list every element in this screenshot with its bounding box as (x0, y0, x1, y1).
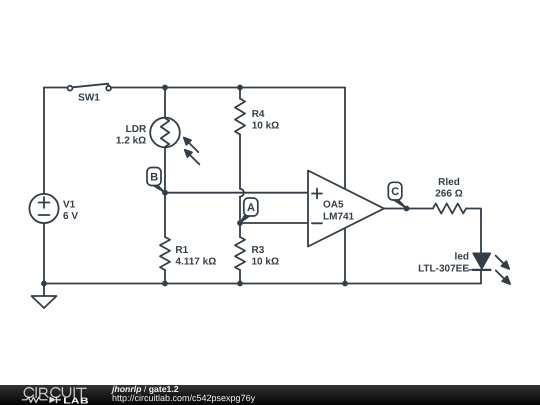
svg-text:R4: R4 (252, 109, 265, 120)
svg-text:266 Ω: 266 Ω (435, 189, 462, 200)
svg-text:SW1: SW1 (78, 93, 100, 104)
junction dot node B (162, 190, 168, 196)
svg-text:V1: V1 (63, 200, 76, 211)
wire left vertical lower (43, 223, 45, 283)
wire top rail right of SW1 (111, 87, 345, 89)
svg-text:http://circuitlab.com/c542psex: http://circuitlab.com/c542psexpg76y (112, 393, 256, 403)
svg-text:OA5: OA5 (323, 200, 344, 211)
footer logo CIRCUIT (24, 388, 86, 398)
resistor R4 (235, 99, 245, 135)
wire LED bottom lead (480, 271, 482, 284)
svg-text:led: led (455, 251, 469, 262)
wire op-amp power vertical (344, 88, 346, 284)
junction dot ground tap (41, 281, 47, 287)
switch SW1 (68, 84, 111, 91)
wire Rled to corner (466, 209, 481, 254)
wire node B horizontal (165, 192, 308, 194)
junction dot bottom rail R3 (237, 281, 243, 287)
node B callout (147, 168, 165, 193)
junction dot bottom rail R1 (162, 281, 168, 287)
wire LDR top lead (164, 88, 166, 119)
footer bar (0, 385, 540, 405)
LED light arrow 1 (496, 256, 510, 269)
footer logo diode (49, 397, 60, 404)
svg-text:LDR: LDR (126, 124, 147, 135)
resistor Rled (433, 204, 466, 214)
resistor R3 (235, 237, 245, 270)
LED light arrow 2 (496, 271, 510, 285)
footer logo resistor zigzag (22, 397, 48, 402)
svg-text:1.2 kΩ: 1.2 kΩ (116, 135, 146, 146)
svg-text:LM741: LM741 (323, 211, 355, 222)
wire R3 bottom lead (239, 270, 241, 284)
svg-text:C: C (391, 186, 399, 198)
ground (32, 284, 57, 309)
svg-text:Rled: Rled (438, 177, 460, 188)
wire R4 top lead (239, 88, 241, 99)
svg-text:LAB: LAB (63, 395, 89, 405)
node C callout (388, 182, 406, 208)
node A callout (240, 198, 258, 223)
wire R4 down to hop (239, 135, 241, 189)
svg-text:B: B (150, 172, 158, 184)
svg-text:10 kΩ: 10 kΩ (252, 121, 279, 132)
wire LDR bottom to R1 (164, 147, 166, 237)
voltage source V1 (29, 194, 58, 223)
LDR light arrow 1 (184, 138, 199, 153)
wire node A horizontal (240, 222, 308, 224)
wire top rail left of SW1 (44, 87, 68, 89)
LED led (469, 253, 491, 270)
LDR light arrow 2 (185, 150, 200, 165)
op-amp OA5 body (308, 171, 384, 247)
junction dot node A (237, 220, 243, 226)
wire left vertical upper (43, 88, 45, 195)
junction dot top rail LDR (162, 85, 168, 91)
svg-text:A: A (247, 202, 255, 214)
wire hop to node A (239, 197, 241, 237)
junction dot node C (404, 206, 410, 212)
wire bottom rail (44, 283, 481, 285)
svg-text:4.117 kΩ: 4.117 kΩ (175, 256, 216, 267)
wire R1 bottom lead (164, 270, 166, 284)
svg-text:LTL-307EE: LTL-307EE (418, 264, 469, 275)
resistor R1 (160, 237, 170, 270)
wire hop over node B wire (240, 189, 244, 197)
svg-text:6 V: 6 V (63, 211, 78, 222)
junction dot top rail R4 (237, 85, 243, 91)
svg-text:10 kΩ: 10 kΩ (252, 256, 279, 267)
junction dot bottom rail op-amp (342, 281, 348, 287)
wire op-amp output (384, 208, 433, 210)
svg-text:R1: R1 (175, 245, 188, 256)
LDR photoresistor (150, 118, 180, 148)
svg-text:R3: R3 (252, 245, 265, 256)
